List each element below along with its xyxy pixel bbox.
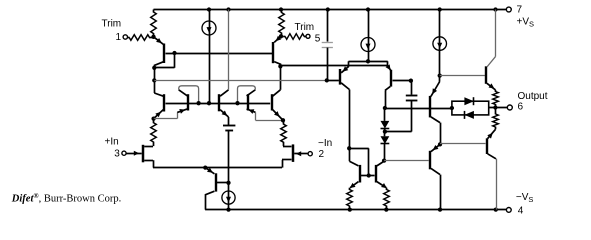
svg-text:5: 5 xyxy=(315,34,321,45)
svg-text:Trim: Trim xyxy=(295,22,315,33)
svg-text:−VS: −VS xyxy=(516,192,534,204)
svg-text:−In: −In xyxy=(318,138,332,149)
svg-text:+VS: +VS xyxy=(517,17,535,29)
svg-text:6: 6 xyxy=(518,102,524,113)
svg-text:+In: +In xyxy=(105,137,119,148)
svg-text:7: 7 xyxy=(517,4,523,15)
svg-text:3: 3 xyxy=(114,149,120,160)
svg-text:Trim: Trim xyxy=(102,19,122,30)
svg-text:1: 1 xyxy=(115,32,121,43)
svg-text:Difet®, Burr-Brown Corp.: Difet®, Burr-Brown Corp. xyxy=(11,192,121,205)
svg-text:Output: Output xyxy=(518,91,548,102)
svg-text:2: 2 xyxy=(319,149,325,160)
svg-text:4: 4 xyxy=(518,206,524,217)
